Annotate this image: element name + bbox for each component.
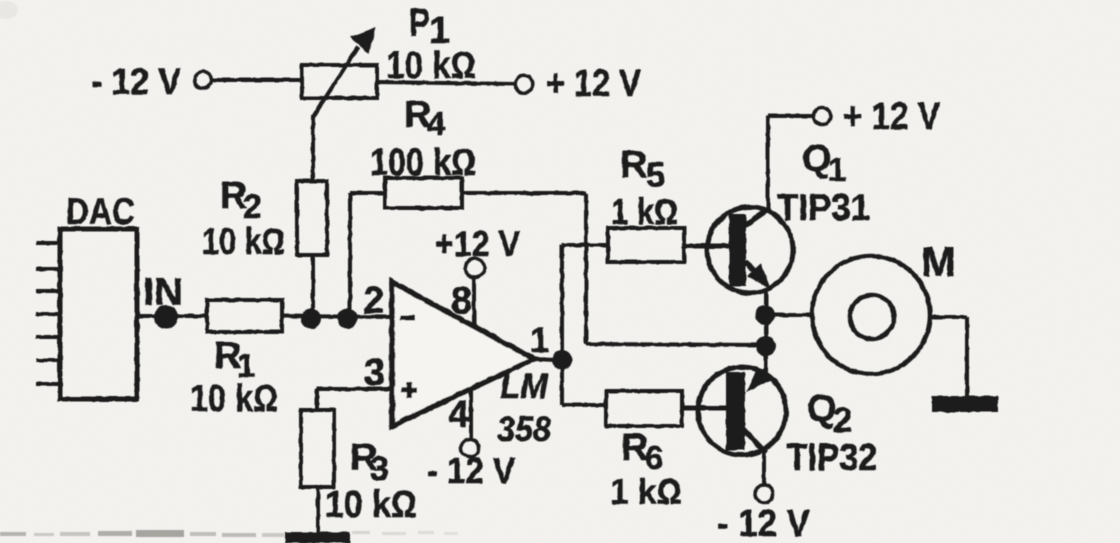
svg-text:10 kΩ: 10 kΩ (325, 484, 417, 526)
svg-text:3: 3 (370, 450, 389, 488)
svg-text:10 kΩ: 10 kΩ (190, 378, 278, 420)
svg-text:1 kΩ: 1 kΩ (610, 471, 682, 512)
svg-text:- 12 V: - 12 V (427, 450, 515, 491)
svg-text:5: 5 (646, 156, 665, 195)
svg-text:IN: IN (143, 271, 183, 314)
svg-text:1: 1 (828, 151, 846, 188)
svg-text:8: 8 (451, 280, 472, 322)
svg-text:+ 12 V: + 12 V (843, 96, 941, 138)
svg-text:DAC: DAC (66, 191, 135, 232)
svg-text:358: 358 (497, 410, 551, 449)
svg-text:M: M (921, 238, 956, 285)
svg-text:4: 4 (448, 394, 469, 436)
svg-text:2: 2 (833, 401, 852, 440)
svg-text:R: R (620, 144, 647, 186)
svg-text:TIP32: TIP32 (787, 437, 877, 479)
svg-text:10 kΩ: 10 kΩ (386, 45, 476, 87)
svg-text:100 kΩ: 100 kΩ (370, 142, 476, 184)
svg-text:2: 2 (363, 280, 384, 322)
svg-text:1 kΩ: 1 kΩ (611, 191, 678, 232)
svg-text:4: 4 (427, 105, 446, 142)
svg-text:+12 V: +12 V (435, 223, 520, 264)
svg-text:LM: LM (500, 367, 549, 406)
svg-text:- 12 V: - 12 V (91, 61, 181, 102)
svg-text:P: P (409, 1, 430, 45)
svg-text:- 12 V: - 12 V (717, 503, 811, 543)
svg-text:TIP31: TIP31 (777, 187, 870, 228)
svg-text:3: 3 (364, 352, 385, 394)
svg-text:+ 12 V: + 12 V (546, 63, 642, 105)
svg-text:10 kΩ: 10 kΩ (202, 221, 285, 262)
svg-text:1: 1 (530, 321, 549, 360)
